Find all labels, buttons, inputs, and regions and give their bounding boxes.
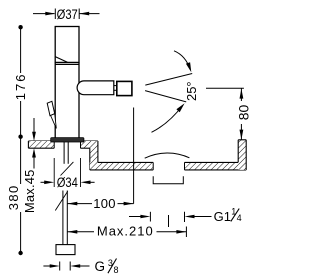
hose connector block [56, 245, 75, 255]
supply pipe right upper [67, 142, 69, 164]
spout neck [114, 86, 117, 91]
dimension Ø37 tick left [54, 9, 56, 20]
svg-text:80: 80 [235, 105, 251, 121]
dimension Max.45 lower arrow [32, 148, 36, 168]
bowl bottom left hatched slab [90, 162, 153, 170]
dimension 380 bottom dot [18, 251, 22, 255]
svg-text:G: G [95, 259, 106, 274]
dimension G 3/8 label [95, 258, 119, 275]
dimension Max.210 right tick [185, 227, 187, 238]
svg-text:4: 4 [237, 213, 242, 223]
spout reference vertical line [133, 108, 135, 204]
dimension G 3/8 right arrow [70, 264, 89, 268]
dimension 176 line [20, 27, 22, 137]
dimension 176 bottom dot [18, 135, 22, 139]
aerator [117, 81, 132, 95]
dimension Ø34 left extension line [53, 158, 55, 187]
dimension G 3/8 left arrow [43, 264, 59, 268]
svg-text:176: 176 [13, 73, 28, 101]
dimension G1 1/4 left tick [149, 212, 151, 222]
lever arm [51, 114, 57, 129]
dimension 100 line [67, 202, 133, 206]
drain outlet bracket [153, 176, 183, 184]
supply pipe left upper [63, 142, 65, 164]
hose bend upper [61, 162, 74, 176]
svg-text:G1: G1 [214, 209, 231, 224]
base flange [51, 138, 84, 142]
dimension G 3/8 left tick [59, 262, 61, 271]
dimension Ø37 line left tail [33, 12, 55, 16]
deck right hatched slab [81, 141, 98, 148]
dimension 176 top dot [18, 25, 22, 29]
supply pipe right lower [66, 191, 68, 245]
dimension Max.45 upper arrow [32, 118, 36, 141]
dimension G 3/8 right tick [69, 262, 71, 271]
bowl wall hatched [90, 141, 98, 170]
dimension 380 line [20, 137, 22, 253]
pop-up waste dome arc [145, 153, 190, 158]
handle cap [55, 27, 79, 63]
deck left hatched slab [28, 141, 54, 148]
dimension Ø34 left arrow [41, 181, 55, 185]
supply pipe left lower [62, 191, 64, 245]
svg-text:Ø37: Ø37 [57, 7, 78, 22]
spout [77, 81, 114, 95]
dimension 80 reference horizontal line [206, 87, 244, 89]
dimension G1 1/4 right tick [184, 212, 186, 222]
lever grip [47, 101, 55, 115]
svg-text:Max.45: Max.45 [22, 170, 37, 214]
dimension Ø37 line right tail [79, 12, 99, 16]
handle lever cut diagonal [55, 57, 67, 63]
dimension Ø34 right arrow [81, 181, 95, 185]
spray angle lower leader arrow [152, 103, 185, 132]
svg-text:380: 380 [6, 184, 21, 210]
dimension Ø37 tick right [78, 9, 80, 20]
dimension G1 1/4 left arrow [129, 215, 150, 219]
body right edge [78, 62, 80, 137]
dimension Ø34 right extension line [80, 158, 82, 187]
hose bend lower [55, 191, 67, 210]
spray upper line [145, 74, 192, 86]
deck top line [28, 140, 98, 142]
svg-text:Ø34: Ø34 [57, 175, 78, 190]
body top ring [55, 63, 79, 65]
bowl bottom right hatched slab [185, 162, 247, 170]
drain centre mark [168, 215, 170, 227]
spray angle upper leader arrow [174, 51, 191, 73]
svg-text:8: 8 [114, 265, 119, 275]
dimension G1 1/4 right arrow [185, 215, 212, 219]
svg-text:Max.210: Max.210 [97, 223, 154, 238]
svg-text:100: 100 [93, 196, 116, 211]
bidet rim hatched [238, 140, 246, 170]
dimension Max.210 line [67, 230, 186, 234]
body left edge [54, 62, 56, 137]
dimension 80 vertical line with arrows [240, 88, 244, 139]
spray lower line [145, 91, 186, 102]
svg-text:25°: 25° [184, 81, 199, 101]
dimension G1 1/4 label [214, 206, 242, 223]
